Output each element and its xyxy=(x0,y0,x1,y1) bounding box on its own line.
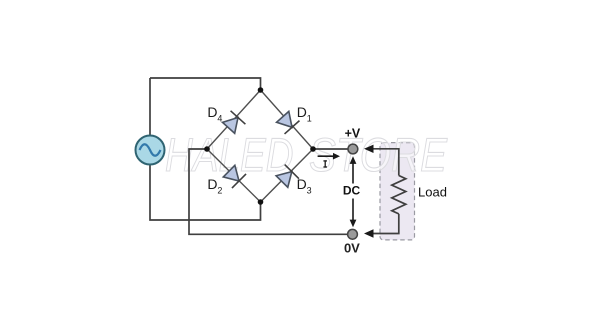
current arrow I xyxy=(318,153,340,160)
svg-text:DC: DC xyxy=(343,184,361,198)
svg-text:3: 3 xyxy=(307,186,312,196)
DC measurement double arrow xyxy=(350,156,357,227)
bridge arm top-right xyxy=(261,90,314,149)
wire from AC source top to top bridge node xyxy=(150,78,261,90)
svg-text:1: 1 xyxy=(307,114,312,124)
wire left bridge node to 0V terminal xyxy=(189,149,348,234)
svg-text:4: 4 xyxy=(217,114,222,124)
label I xyxy=(323,160,327,167)
bridge arm bottom-left xyxy=(207,149,261,202)
svg-text:2: 2 xyxy=(217,186,222,196)
svg-text:0V: 0V xyxy=(344,241,360,256)
diode D4 xyxy=(221,111,245,135)
svg-text:+V: +V xyxy=(345,127,361,141)
watermark HALED STORE xyxy=(165,128,448,181)
wire AC source left branch down to bottom bridge node xyxy=(150,78,261,220)
label D3 xyxy=(297,176,312,196)
diode D2 xyxy=(222,164,246,188)
bridge arm bottom-right xyxy=(261,149,314,202)
wire right bridge node to +V terminal xyxy=(313,148,348,150)
wire load top with arrow to +V xyxy=(364,145,399,176)
node right of bridge xyxy=(310,146,316,152)
label D4 xyxy=(207,104,222,124)
bridge arm top-left xyxy=(207,90,261,149)
load region shaded dashed box xyxy=(380,143,415,240)
svg-text:D: D xyxy=(207,104,217,120)
svg-text:D: D xyxy=(297,104,307,120)
terminal 0V xyxy=(348,229,358,239)
diode D1 xyxy=(275,110,299,134)
label D1 xyxy=(297,104,312,124)
svg-text:Load: Load xyxy=(418,184,447,199)
node top of bridge xyxy=(258,87,264,93)
terminal +V xyxy=(348,144,358,154)
svg-text:D: D xyxy=(207,176,217,192)
resistor load xyxy=(392,176,406,214)
node bottom of bridge xyxy=(258,199,264,205)
AC source V1 xyxy=(136,136,165,165)
diode D3 xyxy=(275,165,299,189)
svg-text:D: D xyxy=(297,176,307,192)
wire load bottom with arrow to 0V xyxy=(364,214,399,238)
label D2 xyxy=(207,176,222,196)
node left of bridge xyxy=(204,146,210,152)
svg-text:STORE: STORE xyxy=(309,128,448,181)
